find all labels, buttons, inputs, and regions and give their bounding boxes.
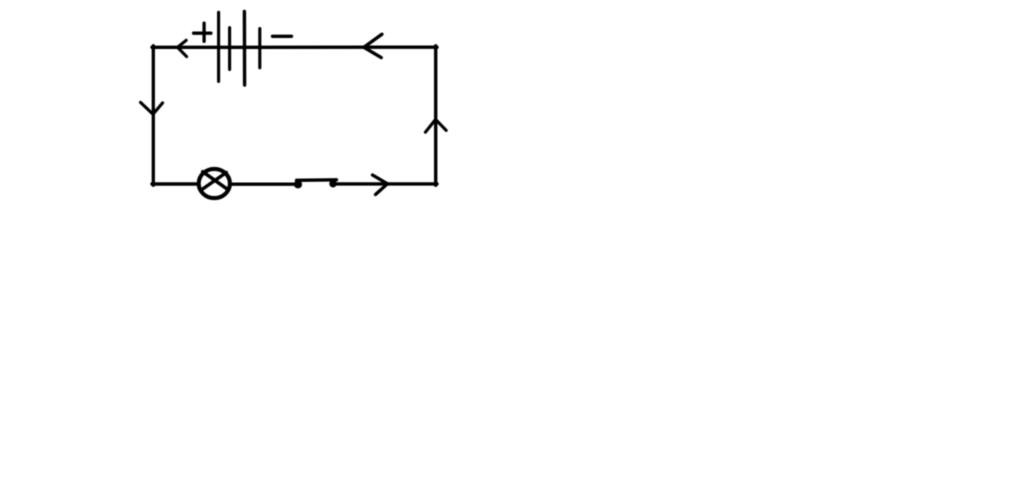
current arrow top-right [364,34,382,57]
lamp L1 [199,169,230,198]
wire bottom middle segment [232,182,296,185]
current arrow left (down) [141,102,163,114]
current arrow right (up) [425,119,446,132]
wire left [152,46,155,186]
wire bottom left segment [152,182,197,185]
battery B1 [219,11,260,85]
wire right [434,46,437,185]
switch S1 [294,180,337,189]
wire top [152,46,437,49]
current arrow top-left [178,40,187,56]
label + (battery positive) [194,23,211,41]
wire bottom right segment [336,182,437,185]
current arrow bottom-right [373,175,388,195]
label − (battery negative) [273,35,292,38]
